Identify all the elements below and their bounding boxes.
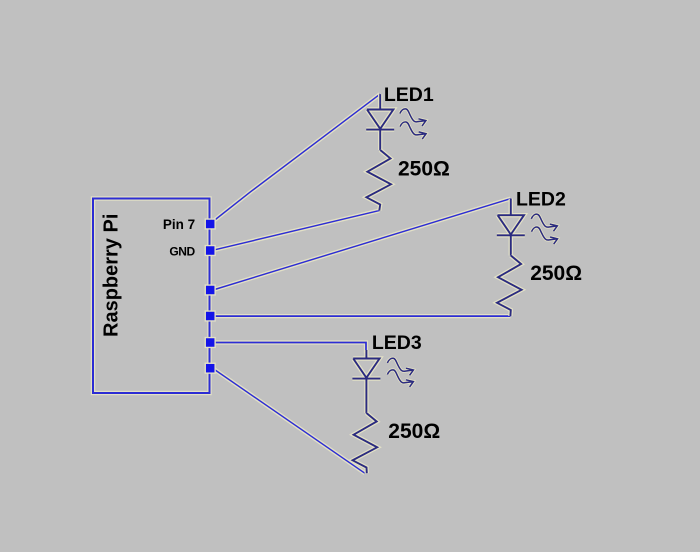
resistor R3 <box>353 413 378 473</box>
svg-text:LED2: LED2 <box>516 188 566 210</box>
svg-text:250Ω: 250Ω <box>530 262 582 285</box>
LED1 light arrows <box>400 109 426 139</box>
svg-text:LED3: LED3 <box>372 332 422 354</box>
wire R2 bottom to pin4 <box>213 314 510 318</box>
pin 6 <box>205 363 216 374</box>
pin 1 (Pin 7) <box>205 218 216 229</box>
svg-text:Pin 7: Pin 7 <box>163 217 195 232</box>
svg-text:GND: GND <box>169 245 195 259</box>
wire pin3 to LED2 anode <box>213 199 511 290</box>
svg-text:Raspberry Pi: Raspberry Pi <box>101 214 123 337</box>
LED2 light arrows <box>531 214 557 244</box>
wire pin5 to LED3 anode <box>213 343 366 354</box>
resistor R2 <box>497 256 522 317</box>
pin 2 (GND) <box>205 245 216 256</box>
pin 3 <box>205 284 216 295</box>
wire R1 bottom to GND pin <box>213 211 379 251</box>
svg-text:250Ω: 250Ω <box>388 420 440 443</box>
pin 4 <box>205 310 216 321</box>
pin 5 <box>205 337 216 348</box>
wire pin1 to LED1 anode <box>214 94 381 221</box>
LED3 light arrows <box>387 358 413 387</box>
LED D2 <box>497 199 525 256</box>
svg-text:LED1: LED1 <box>384 84 434 106</box>
wire pin6 to R3 bottom <box>213 369 365 474</box>
LED D3 <box>352 350 380 413</box>
svg-text:250Ω: 250Ω <box>398 158 450 181</box>
Raspberry Pi board U1 <box>93 199 210 394</box>
resistor R1 <box>366 150 391 211</box>
LED D1 <box>366 94 394 150</box>
